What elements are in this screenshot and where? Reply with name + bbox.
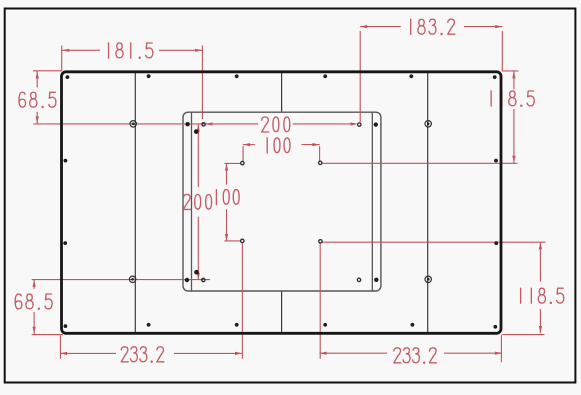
dim text 118.5 top right [491, 91, 534, 106]
dim 118.5 br top extension row y=242 [322, 241, 546, 243]
dim 233.2 bl arrow left [60, 352, 67, 355]
plate flange hole top-right [374, 122, 378, 126]
dim 181.5 arrow right [195, 49, 202, 52]
panel hole top edge 3 [235, 74, 239, 78]
panel hole top edge 2 [147, 74, 151, 78]
VESA200 hole top-right [358, 123, 361, 126]
panel hole bottom edge 5 [411, 323, 415, 327]
dim 183.2 arrow left [360, 25, 367, 28]
stud hole left line bottom [129, 276, 135, 282]
dim 118.5 tr top extension [502, 70, 518, 72]
dim 118.5 br bottom extension [502, 334, 544, 336]
dim 100 arrow right [312, 143, 319, 146]
dim 100 extension right [319, 146, 321, 161]
dim 233.2 bl arrow right [235, 352, 242, 355]
panel hole bottom edge 3 [235, 323, 239, 327]
dim 68.5 bottom line lower segment [33, 312, 35, 334]
dim 100 vertical arrow up [225, 163, 228, 170]
dim 233.2 br extension right [500, 335, 502, 363]
panel hole top-left corner [66, 75, 70, 79]
dim text 68.5 top [19, 92, 56, 107]
dim 183.2 extension line right [501, 31, 503, 71]
dim text 200 vertical [183, 194, 211, 209]
dim 181.5 extension line left [61, 46, 63, 72]
VESA100 hole bottom-left [241, 239, 244, 242]
panel hole left edge 3 [63, 241, 67, 245]
VESA200 hole bottom-left [202, 278, 205, 281]
dim 200 arrow right [351, 122, 358, 125]
panel hole left edge 2 [64, 159, 68, 163]
panel hole bottom-right corner [493, 325, 497, 329]
dim 68.5 top line upper segment [36, 71, 38, 87]
panel interior vertical line right [427, 72, 429, 334]
panel back cover outline [62, 72, 502, 334]
dim 233.2 bl line right segment [174, 352, 242, 354]
dim 100 vertical extension top [224, 162, 241, 164]
dim 233.2 br arrow left [319, 352, 326, 355]
dim 118.5 tr arrow down [512, 156, 515, 163]
dim 68.5 bottom top extension row y=279.6 [32, 279, 210, 281]
VESA100 hole top-left [241, 161, 244, 164]
dim text 200 horizontal [262, 117, 290, 132]
panel hole top edge 4 [323, 74, 327, 78]
dim 200 arrow left [205, 122, 212, 125]
VESA200 hole bottom-right [357, 278, 360, 281]
dim 181.5 line right segment [159, 49, 202, 51]
dim 181.5 extension line right [201, 46, 203, 120]
dim 68.5 bottom arrow up [33, 280, 36, 287]
stud hole left line top [130, 121, 136, 127]
dim 233.2 bl extension right [241, 243, 243, 359]
dim 68.5 top line lower segment [36, 112, 38, 124]
panel hole right edge 2 [494, 159, 498, 163]
dim 181.5 arrow left [62, 49, 69, 52]
dim 200 vertical line lower segment [197, 217, 199, 280]
dim 181.5 line left segment [62, 49, 100, 51]
dim 118.5 br line lower segment [539, 309, 541, 333]
plate flange hole bottom-left [185, 278, 189, 282]
VESA100 hole bottom-right [319, 240, 322, 243]
dim 100 line right segment [302, 144, 320, 146]
dim 68.5 bottom line upper segment [33, 280, 35, 289]
dim 100 arrow left [243, 143, 250, 146]
dim 100 vertical arrow down [225, 234, 228, 241]
dim 233.2 br line right segment [444, 352, 502, 354]
dim text 233.2 bottom right [394, 348, 437, 363]
dim 118.5 tr line upper segment [513, 71, 515, 89]
row extension line through left holes / dim 200 line left [33, 123, 258, 125]
panel hole top edge 5 [409, 74, 413, 78]
VESA100 hole top-right [319, 161, 322, 164]
dim 118.5 tr bottom extension row y=163 [322, 162, 518, 164]
dim text 181.5 [109, 43, 153, 58]
VESA200 hole top-left [202, 123, 205, 126]
dim 233.2 br arrow right [495, 352, 502, 355]
dim 118.5 br arrow up [539, 242, 542, 249]
dim 68.5 top arrow up [36, 71, 39, 78]
dim 183.2 extension line left [359, 31, 361, 122]
dim text 100 vertical [216, 190, 239, 205]
dim 200 vertical arrow up [197, 124, 200, 131]
plate left flange fold line [191, 112, 193, 291]
dim 118.5 br line upper segment [539, 242, 541, 281]
dim 68.5 top extension line [33, 70, 61, 72]
dim 100 extension left [242, 146, 244, 161]
dim 183.2 arrow right [495, 25, 502, 28]
panel interior vertical line middle [281, 72, 283, 334]
dim 68.5 top arrow down [36, 116, 39, 123]
dim 118.5 tr arrow up [512, 71, 515, 78]
dim 183.2 line left segment [360, 26, 401, 28]
dim 118.5 br arrow down [539, 326, 542, 333]
dim 100 line left segment [243, 144, 255, 146]
dim 68.5 bottom arrow down [33, 327, 36, 334]
dim 200 vertical line upper segment [197, 124, 199, 187]
dim text 183.2 [411, 19, 455, 34]
dim 100 vertical line lower segment [226, 209, 228, 241]
dim 200 vertical arrow down [197, 273, 200, 280]
stud hole right line bottom [425, 276, 431, 282]
dim text 68.5 bottom [15, 294, 52, 309]
plate inner hole bottom-left [194, 270, 199, 275]
panel hole right edge 3 [494, 241, 498, 245]
dim text 233.2 bottom left [121, 347, 164, 362]
dim 118.5 tr line lower segment [513, 109, 515, 163]
dim 100 vertical extension bottom [224, 240, 240, 242]
VESA mount plate outline [183, 112, 381, 291]
plate flange hole bottom-right [374, 278, 378, 282]
dim 68.5 bottom bottom extension [32, 334, 63, 336]
panel hole bottom edge 4 [323, 323, 327, 327]
dim 100 vertical line upper segment [226, 163, 228, 184]
plate flange hole top-left [185, 122, 189, 126]
dim 233.2 br extension left [319, 243, 321, 359]
plate inner hole top-left [194, 129, 199, 134]
dim 200 line right segment [293, 123, 357, 125]
dim 233.2 bl extension left [59, 335, 61, 359]
stud hole right line top [425, 121, 431, 127]
panel hole top-right corner [493, 75, 497, 79]
dim text 100 horizontal [267, 138, 290, 153]
dim 233.2 bl line left segment [60, 352, 116, 354]
plate right flange fold line [371, 112, 373, 291]
dim 183.2 line right segment [464, 26, 502, 28]
panel hole bottom edge 2 [147, 323, 151, 327]
dim text 118.5 bottom right [521, 288, 564, 303]
dim 233.2 br line left segment [319, 352, 387, 354]
panel hole bottom-left corner [64, 324, 68, 328]
panel interior vertical line left [134, 72, 136, 334]
